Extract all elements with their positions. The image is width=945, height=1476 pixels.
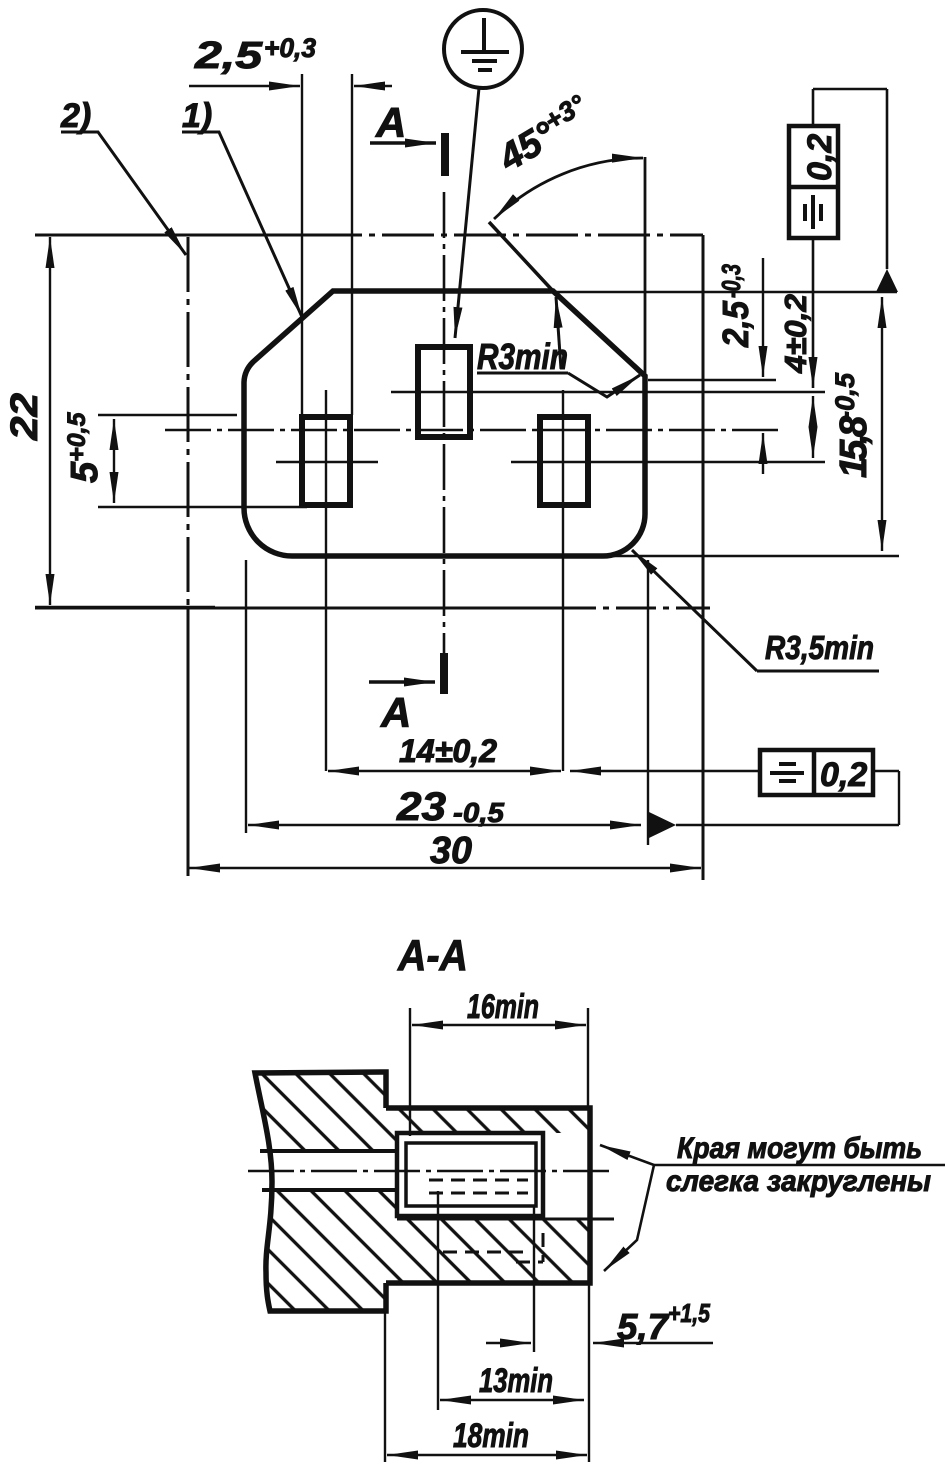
outer boundary 30x22 (dash-dot rectangle)	[35, 235, 710, 880]
svg-text:30: 30	[430, 830, 472, 872]
left pin centerlines	[325, 390, 327, 771]
dim 15,8-0,5 (right)	[556, 292, 899, 556]
cavity inner rect	[406, 1143, 536, 1206]
svg-text:4±0,2: 4±0,2	[778, 294, 813, 374]
earth symbol	[444, 10, 522, 88]
svg-text:-0,3: -0,3	[716, 264, 746, 298]
main vertical centerline	[443, 192, 446, 695]
dim 5,7+1,5	[486, 1342, 713, 1344]
svg-text:R3min: R3min	[477, 336, 568, 377]
svg-text:2): 2)	[60, 97, 91, 135]
dim 18min	[387, 1454, 587, 1456]
hatching upper region	[255, 1073, 590, 1151]
slot line below cavity	[397, 1218, 614, 1221]
hidden contact lines (dashed)	[429, 1180, 543, 1262]
5,7 left extension	[533, 1206, 535, 1352]
dim 23-0,5	[246, 560, 899, 845]
dim 30	[189, 867, 701, 869]
svg-text:0,2: 0,2	[801, 134, 839, 181]
dim 2,5+0,3 (top left)	[189, 74, 392, 415]
connector face outline (rounded, chamfered)	[244, 291, 645, 556]
chamfer construction extension	[489, 222, 553, 291]
feature control frame 1 (vertical) leader	[813, 89, 887, 388]
earth pin hole	[418, 347, 470, 437]
svg-text:5,7: 5,7	[617, 1306, 670, 1347]
svg-text:+0,3: +0,3	[264, 33, 316, 63]
svg-text:A: A	[380, 689, 411, 736]
dim 22 (left)	[35, 237, 215, 607]
svg-text:18min: 18min	[453, 1417, 529, 1455]
note leader (edges may be slightly rounded)	[654, 1164, 945, 1167]
main horizontal centerline	[165, 429, 778, 432]
svg-text:1): 1)	[182, 97, 212, 135]
svg-text:A-A: A-A	[397, 931, 468, 980]
right pin hole	[540, 417, 588, 505]
dim 14±0,2	[328, 770, 561, 772]
dim 45deg+3	[489, 89, 599, 180]
earth symbol leader to pin	[455, 88, 479, 338]
vertical extension above chamfer end	[644, 157, 647, 376]
svg-text:16min: 16min	[467, 988, 539, 1026]
svg-text:-0,5: -0,5	[453, 797, 504, 828]
right pin centerlines	[562, 390, 564, 771]
dim 2,5-0,3 (right, vertical)	[762, 258, 764, 474]
13min left extension	[437, 1191, 439, 1410]
svg-text:слегка закруглены: слегка закруглены	[666, 1165, 931, 1198]
dim 13min	[440, 1399, 584, 1401]
svg-text:2,5: 2,5	[194, 35, 263, 77]
feature control frame 1 (vertical)	[789, 126, 838, 238]
svg-text:R3,5min: R3,5min	[765, 629, 874, 666]
svg-text:Края могут быть: Края могут быть	[677, 1132, 922, 1165]
body outline	[255, 1072, 386, 1311]
extensions below body	[384, 1283, 386, 1462]
feature control frame 2 (horizontal)	[760, 750, 873, 795]
frame2 leader arrow	[570, 770, 760, 772]
svg-text:15,8-0,5: 15,8-0,5	[830, 372, 875, 478]
dim 16min	[410, 1008, 588, 1136]
chamfer end extension L1	[648, 379, 776, 381]
svg-text:14±0,2: 14±0,2	[399, 733, 497, 769]
hatching lower region	[266, 1190, 590, 1311]
svg-text:5+0,5: 5+0,5	[63, 411, 106, 483]
pin channel in wall	[260, 1149, 397, 1153]
svg-text:0,2: 0,2	[820, 756, 867, 794]
cavity outer rect	[397, 1133, 543, 1216]
section centerline	[248, 1170, 614, 1173]
svg-text:13min: 13min	[479, 1362, 553, 1400]
svg-text:23: 23	[396, 785, 446, 829]
svg-text:+1,5: +1,5	[668, 1298, 710, 1328]
dim 5+0,5 (left)	[98, 415, 307, 507]
datum triangle (top, on top face extension)	[876, 269, 898, 292]
svg-text:2,5: 2,5	[715, 300, 756, 348]
dim 4±0,2 (right, vertical)	[812, 396, 814, 458]
svg-text:A: A	[375, 99, 406, 146]
earth pin horizontal centerline L2	[391, 391, 825, 393]
datum triangle (bottom, on right extension line)	[649, 812, 676, 838]
left pin hole	[302, 417, 350, 505]
svg-text:22: 22	[4, 393, 46, 441]
